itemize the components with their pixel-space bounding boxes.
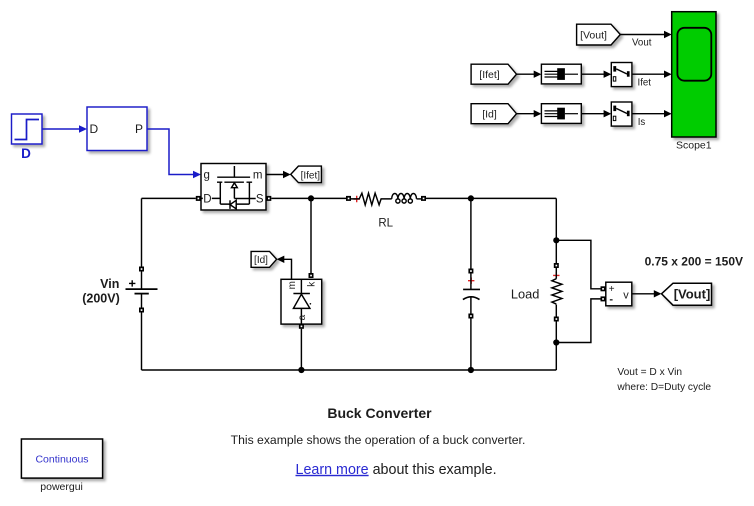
svg-text:This example shows the operati: This example shows the operation of a bu… xyxy=(231,433,526,447)
wire Vout tag to scope xyxy=(620,34,664,36)
scope Scope1 xyxy=(672,12,716,137)
svg-text:Vout = D x Vin: Vout = D x Vin xyxy=(617,367,682,378)
wire switch1 to scope xyxy=(632,73,665,75)
svg-text:m: m xyxy=(253,170,263,182)
node: load bottom junction xyxy=(553,339,559,345)
diode block xyxy=(281,279,322,324)
svg-text:Vout: Vout xyxy=(632,38,652,49)
svg-text:[Vout]: [Vout] xyxy=(674,287,711,302)
powergui block xyxy=(21,439,102,478)
MOSFET block xyxy=(201,164,266,211)
left rail lower xyxy=(141,313,143,371)
wire load bottom to VM minus xyxy=(556,299,600,343)
svg-text:RL: RL xyxy=(378,218,393,230)
capacitor C xyxy=(463,198,480,370)
from tag [Ifet] xyxy=(471,64,516,84)
wire top rail corner down to load xyxy=(555,198,557,263)
wire mosfet D to left rail xyxy=(142,197,196,199)
svg-text:D: D xyxy=(21,146,31,161)
node: load top junction xyxy=(553,237,559,243)
port square: mosfet D xyxy=(196,196,201,201)
load resistor xyxy=(552,263,562,370)
wire m to Ifet goto xyxy=(267,171,291,178)
svg-text:(200V): (200V) xyxy=(82,292,120,306)
step source block D xyxy=(12,114,43,144)
wire Id tag to converter2 xyxy=(517,113,535,115)
wire converter2 to switch2 xyxy=(581,113,604,115)
wire VM to Vout goto xyxy=(632,293,655,295)
svg-text:Buck Converter: Buck Converter xyxy=(327,405,432,421)
subsystem U1 (D/P PWM generator) xyxy=(87,107,147,151)
svg-text:Scope1: Scope1 xyxy=(676,139,712,151)
svg-text:v: v xyxy=(623,290,629,302)
svg-text:[Id]: [Id] xyxy=(482,109,497,121)
goto tag [Id] xyxy=(251,251,277,267)
svg-text:D: D xyxy=(90,122,99,136)
manual switch 2 xyxy=(611,102,632,126)
svg-text:S: S xyxy=(256,194,264,206)
Vin DC source xyxy=(126,267,158,313)
svg-text:[Id]: [Id] xyxy=(254,255,268,266)
port square: diode k xyxy=(309,273,314,278)
node: capacitor bottom xyxy=(468,367,474,373)
from tag [Id] xyxy=(471,104,516,124)
svg-text:g: g xyxy=(204,170,210,182)
node: diode anode on bottom rail xyxy=(298,367,304,373)
svg-text:-: - xyxy=(609,294,613,306)
wire switch2 to scope xyxy=(632,113,665,115)
svg-text:P: P xyxy=(135,122,143,136)
manual switch 1 xyxy=(611,63,632,87)
svg-text:m: m xyxy=(287,281,298,289)
bottom rail xyxy=(142,369,557,371)
wire junction to diode k port xyxy=(310,198,312,273)
voltage measurement block xyxy=(606,282,632,306)
signal converter 1 xyxy=(541,64,581,84)
svg-text:[Ifet]: [Ifet] xyxy=(479,69,500,81)
port square: VM minus xyxy=(601,296,606,301)
signal converter 2 xyxy=(541,104,581,124)
top rail RL to load corner xyxy=(426,197,556,199)
svg-text:0.75 x 200 = 150V: 0.75 x 200 = 150V xyxy=(645,254,743,268)
wire converter1 to switch1 xyxy=(581,73,604,75)
wire step to subsystem xyxy=(43,125,88,133)
wire diode a to bottom rail xyxy=(300,329,302,370)
series RLC branch RL xyxy=(346,193,426,205)
goto tag [Vout] xyxy=(662,283,712,305)
svg-text:Ifet: Ifet xyxy=(638,77,652,88)
node: diode cathode junction xyxy=(308,195,314,201)
port square: diode a xyxy=(299,324,304,329)
wire load top to VM plus xyxy=(556,240,600,288)
wire diode m to Id goto xyxy=(284,259,292,279)
svg-text:[Ifet]: [Ifet] xyxy=(301,170,321,181)
port square: mosfet S xyxy=(266,196,271,201)
svg-text:Is: Is xyxy=(638,117,646,128)
svg-text:where: D=Duty cycle: where: D=Duty cycle xyxy=(616,382,711,393)
wire Ifet tag to converter xyxy=(517,73,535,75)
svg-text:D: D xyxy=(203,194,211,206)
svg-text:a: a xyxy=(297,314,308,320)
node: capacitor top xyxy=(468,195,474,201)
top rail S to RL xyxy=(271,197,346,199)
port square: VM plus xyxy=(601,286,606,291)
svg-text:powergui: powergui xyxy=(40,481,83,493)
left rail upper xyxy=(141,198,143,266)
svg-text:Continuous: Continuous xyxy=(35,453,88,465)
svg-text:Learn more about this example.: Learn more about this example. xyxy=(296,462,497,478)
svg-text:[Vout]: [Vout] xyxy=(580,29,607,41)
from tag [Vout] xyxy=(577,24,621,45)
wire P to mosfet gate xyxy=(147,129,201,178)
svg-text:Load: Load xyxy=(511,287,539,302)
goto tag [Ifet] xyxy=(291,166,322,183)
svg-text:Vin: Vin xyxy=(100,277,119,291)
